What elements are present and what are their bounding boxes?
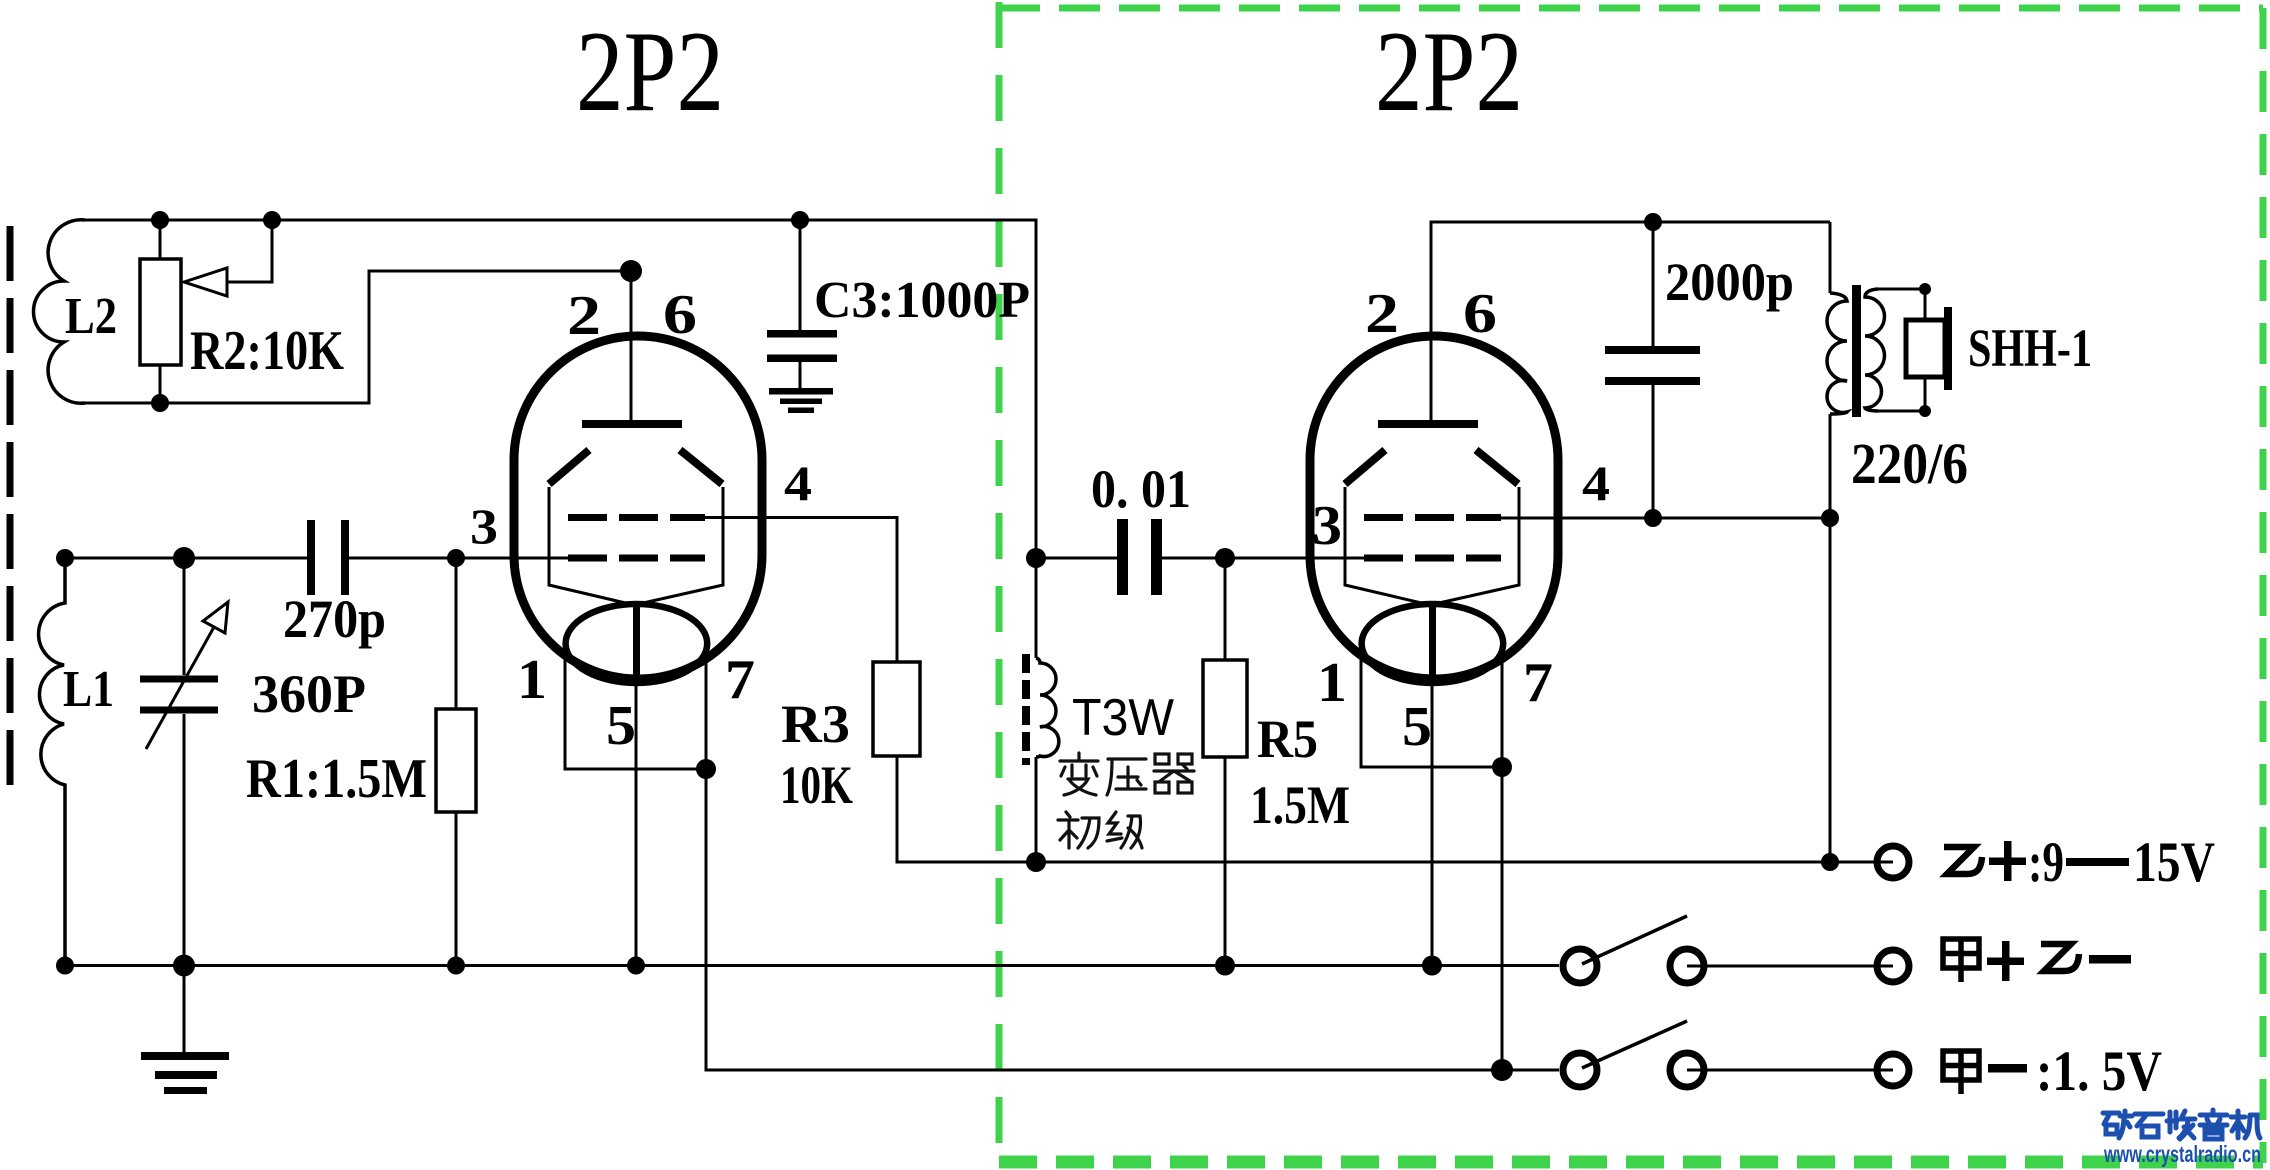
- wire: V1 grid cap lead: [630, 271, 633, 424]
- wire: V1 pin 1 filament lead: [565, 660, 706, 769]
- svg-text:2P2: 2P2: [576, 8, 724, 135]
- svg-text:220/6: 220/6: [1851, 431, 1968, 496]
- junction dot 2000p bottom: [1644, 509, 1662, 527]
- wire: primary bottom to B+ rail: [1829, 414, 1832, 862]
- junction dot V2 pin5 on filament bus: [1422, 956, 1442, 976]
- svg-text:2: 2: [567, 285, 601, 347]
- wire: V2 pin 1 filament lead: [1361, 660, 1502, 767]
- junction dot V2 pin7 on jia- rail: [1491, 1059, 1513, 1081]
- switch on jia- rail: right contact: [1670, 1053, 1704, 1087]
- wire: speaker bottom lead: [1924, 377, 1927, 411]
- wire: 360P bottom stem: [183, 714, 186, 965]
- svg-text:L2: L2: [65, 288, 117, 345]
- switch on filament bus: left contact: [1563, 949, 1597, 983]
- potentiometer R2 body: [140, 259, 181, 365]
- svg-text:5: 5: [606, 695, 636, 757]
- svg-text:R1:1.5M: R1:1.5M: [246, 748, 427, 810]
- svg-text:360P: 360P: [252, 664, 366, 724]
- junction dot 360P top: [173, 547, 195, 569]
- svg-text:7: 7: [1523, 652, 1553, 714]
- vacuum tube V1 2P2: [514, 336, 762, 683]
- wire: R1 top stem: [455, 558, 458, 709]
- wire: R5 top stem: [1224, 558, 1227, 660]
- capacitor C3 bottom plate: [767, 355, 837, 363]
- wire: R5 bottom stem: [1224, 757, 1227, 965]
- terminal dot speaker bottom: [1919, 405, 1931, 417]
- transformer T3W primary coil: [1036, 658, 1059, 757]
- wire: output transformer primary riser: [1829, 222, 1832, 293]
- resistor R1 body: [436, 709, 476, 812]
- wire: T3W upper stem: [1035, 558, 1038, 658]
- variable capacitor arrow head: [203, 602, 228, 633]
- label terminal yi+:9-15V: [1944, 847, 1982, 874]
- junction dot R5 top node: [1215, 548, 1235, 568]
- output transformer secondary coil: [1865, 289, 1885, 411]
- resistor R3 body: [873, 662, 920, 756]
- earphone SHH-1 body: [1906, 320, 1945, 377]
- svg-text:2000p: 2000p: [1665, 252, 1794, 312]
- junction dot ground branch: [173, 955, 195, 977]
- switch on jia- rail: left contact: [1563, 1053, 1597, 1087]
- potentiometer R2 wiper arrow: [184, 268, 227, 296]
- wire: detector output to 0.01: [1036, 557, 1117, 560]
- wire: top bus of RF stage y=220: [85, 220, 1036, 558]
- capacitor 2000p top plate: [1605, 346, 1700, 354]
- resistor R5 body: [1203, 660, 1247, 757]
- wire: L2 bottom to riser: [85, 271, 625, 403]
- terminal dot speaker top: [1919, 283, 1931, 295]
- wire: 2000p bottom stem: [1652, 385, 1655, 518]
- wire: V2 plate (pin 4) to output transformer: [1501, 517, 1830, 520]
- svg-text:R3: R3: [781, 694, 850, 754]
- svg-text:www.crystalradio.cn: www.crystalradio.cn: [2103, 1141, 2261, 1167]
- wire: filament bus (jia+ yi-) y=965.5: [65, 964, 1559, 967]
- junction dot V2 pin1/pin7: [1492, 757, 1512, 777]
- svg-text:3: 3: [1312, 495, 1342, 557]
- antenna rod dashed line: [7, 226, 14, 785]
- terminal circle jia+yi-: [1877, 950, 1909, 982]
- variable capacitor 360P top plate: [140, 676, 218, 683]
- variable capacitor arrow shaft: [146, 627, 214, 749]
- wire: ground stem: [183, 966, 186, 1053]
- svg-text:1: 1: [1317, 652, 1347, 714]
- wire: V1 pin 5 down to filament bus: [635, 683, 638, 965]
- wire: secondary bottom to speaker: [1876, 410, 1925, 413]
- wire: V2 pin 5 down to filament bus: [1431, 683, 1434, 965]
- junction dot R5 bottom on filament bus: [1215, 956, 1235, 976]
- junction dot top bus / wiper: [263, 211, 281, 229]
- svg-text:C3:1000P: C3:1000P: [814, 272, 1030, 329]
- terminal jia- stub: [1877, 1069, 1893, 1072]
- junction dot L2 bottom / R2: [151, 394, 169, 412]
- label bianyaqi (transformer) hand glyphs: [1058, 753, 1194, 848]
- svg-text:R2:10K: R2:10K: [190, 320, 344, 382]
- junction dot R1 bottom: [447, 957, 465, 975]
- junction dot V1 pin5: [627, 957, 645, 975]
- capacitor 270p left plate: [307, 520, 315, 595]
- wire: R3 bottom to B+ rail: [897, 756, 1877, 862]
- svg-text:6: 6: [1463, 283, 1497, 345]
- svg-text:4: 4: [784, 455, 812, 511]
- switch on filament bus: lever: [1582, 916, 1687, 964]
- svg-text:6: 6: [663, 284, 697, 346]
- capacitor 2000p bottom plate: [1605, 377, 1700, 385]
- svg-text:10K: 10K: [780, 755, 853, 815]
- svg-text:15V: 15V: [2133, 831, 2215, 894]
- svg-text:T3W: T3W: [1072, 689, 1174, 747]
- coupling capacitor 0.01 right plate: [1151, 519, 1162, 595]
- wire: V1 plate (pin 4) to R3: [705, 518, 897, 663]
- junction dot plate node: [1821, 509, 1839, 527]
- junction dot V1 pin1/pin7: [696, 759, 716, 779]
- svg-text:SHH-1: SHH-1: [1968, 318, 2092, 378]
- svg-text:1: 1: [517, 649, 547, 711]
- terminal jia+yi- stub: [1877, 965, 1893, 968]
- terminal circle jia-: [1877, 1054, 1909, 1086]
- svg-text::9: :9: [2028, 831, 2064, 894]
- vacuum tube V2 2P2: [1310, 336, 1558, 683]
- wire: R1 bottom stem: [455, 812, 458, 965]
- svg-text:2P2: 2P2: [1375, 8, 1523, 135]
- wire: 0.01 to V2 grid (pin 3): [1162, 557, 1368, 560]
- terminal circle B+ (yi+): [1877, 846, 1909, 878]
- svg-text:2: 2: [1365, 283, 1399, 345]
- variable capacitor 360P bottom plate: [140, 707, 218, 714]
- svg-text:3: 3: [470, 498, 498, 554]
- junction dot T3W top node: [1026, 548, 1046, 568]
- junction dot L1 top: [56, 549, 74, 567]
- switch on filament bus: right contact: [1670, 949, 1704, 983]
- switch on jia- rail: lever: [1582, 1021, 1687, 1068]
- wire: V2 pin 7 down to jia- rail: [1501, 662, 1504, 1070]
- wire: switch to terminal jia-: [1687, 1069, 1893, 1072]
- wire: 270p to V1 grid (pin 3): [346, 557, 572, 560]
- junction dot primary bottom at B+: [1821, 853, 1839, 871]
- junction dot C3 top: [791, 211, 809, 229]
- wire: V2 grid cap lead to top-right bus: [1431, 222, 1830, 424]
- coil L1: [39, 558, 65, 965]
- coil L2: [33, 220, 85, 403]
- transformer T3W core dashed bar: [1022, 654, 1030, 765]
- junction dot top bus / R2: [151, 211, 169, 229]
- terminal B+ stub: [1877, 861, 1893, 864]
- junction dot grid leak node: [447, 549, 465, 567]
- wire: 360P top stem: [183, 558, 186, 675]
- capacitor C3 stem from bus: [799, 220, 802, 331]
- junction dot L1 bottom: [56, 957, 74, 975]
- svg-text:R5: R5: [1257, 709, 1318, 769]
- svg-text:4: 4: [1582, 455, 1610, 511]
- capacitor 270p right plate: [341, 520, 349, 595]
- output transformer primary coil: [1827, 293, 1847, 414]
- chassis ground symbol: [141, 1052, 229, 1094]
- svg-text:1.5M: 1.5M: [1250, 775, 1350, 835]
- wire: speaker top lead: [1924, 289, 1927, 320]
- earphone SHH-1 diaphragm bar: [1944, 307, 1952, 390]
- wire: R2 top stem: [159, 220, 162, 259]
- label terminal jia+ yi-: [1943, 939, 1979, 982]
- green dashed enclosure box around audio stage: [999, 2, 2263, 1163]
- watermark kuangshi shouyinji (blue): [2103, 1110, 2260, 1139]
- svg-text:270p: 270p: [283, 589, 386, 649]
- junction dot T3W bottom node: [1026, 852, 1046, 872]
- wire: 2000p top stem: [1652, 222, 1655, 346]
- svg-text:5: 5: [1402, 696, 1432, 758]
- label terminal jia-:1.5V: [1943, 1051, 1979, 1094]
- svg-text:7: 7: [725, 649, 755, 711]
- output transformer core bar: [1852, 285, 1861, 417]
- wire: secondary top to speaker: [1876, 288, 1925, 291]
- wire: T3W lower stem: [1035, 757, 1038, 862]
- junction dot 2000p top: [1644, 213, 1662, 231]
- coupling capacitor 0.01 left plate: [1117, 519, 1128, 595]
- ground symbol below C3: [769, 388, 833, 413]
- junction dot grid cap of V1: [620, 260, 642, 282]
- wire: tuned circuit top rail y=558: [65, 557, 311, 560]
- wire: R2 bottom stem: [159, 365, 162, 403]
- wire: switch to terminal jia+yi-: [1687, 965, 1893, 968]
- wire: wiper to top bus: [227, 220, 272, 282]
- wire: C3 to ground: [799, 362, 802, 389]
- capacitor C3 top plate: [767, 330, 837, 338]
- wire: V1 pin 7 down to jia- rail: [706, 662, 1559, 1070]
- svg-text::1. 5V: :1. 5V: [2036, 1040, 2162, 1103]
- svg-text:0. 01: 0. 01: [1091, 459, 1191, 519]
- svg-text:L1: L1: [63, 661, 114, 718]
